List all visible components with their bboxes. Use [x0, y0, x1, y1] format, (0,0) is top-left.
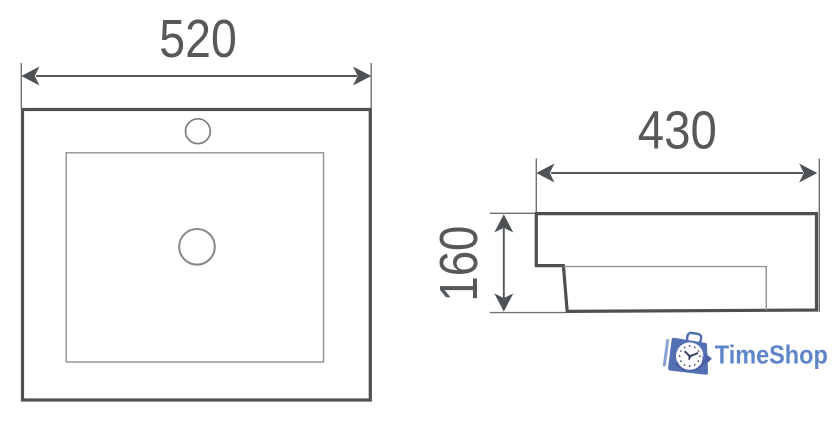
svg-text:430: 430: [638, 101, 717, 161]
svg-text:TimeShop: TimeShop: [715, 340, 828, 370]
svg-text:520: 520: [159, 9, 237, 69]
svg-text:160: 160: [429, 226, 489, 302]
